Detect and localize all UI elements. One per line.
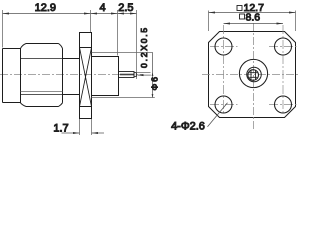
svg-text:0.2X0.5: 0.2X0.5 — [139, 26, 149, 68]
hole bottom-right — [275, 96, 292, 113]
side view: dimension line 12.9/4/2.5 — [3, 13, 137, 15]
left cap cylinder — [3, 49, 21, 103]
pin chamfer arrow line — [138, 74, 151, 76]
extension line x=136.5 pin tip — [136, 10, 138, 79]
flange side rectangle — [80, 33, 92, 119]
dim 8.6 line — [224, 23, 284, 25]
centerline of side view — [0, 74, 143, 76]
svg-text:8.6: 8.6 — [246, 11, 261, 23]
arrow pair at x=117.5 — [111, 13, 118, 15]
flange X diagonal 2 — [80, 48, 92, 107]
arrow 12.7 right — [289, 12, 296, 14]
label phi6 — [149, 75, 159, 91]
arrow 1.7 right — [92, 132, 99, 134]
arrow pair at x=90.5 — [84, 13, 91, 15]
pin dark core — [120, 74, 134, 76]
hex nut body outline — [21, 44, 63, 107]
svg-text:1.7: 1.7 — [53, 122, 68, 134]
phi6 arrow up — [152, 73, 154, 76]
center pin circle hatched — [248, 70, 259, 81]
mid cylinder between hex and flange — [63, 59, 80, 95]
arrow 8.6 left — [224, 23, 231, 25]
extension 12.7 right — [295, 11, 297, 32]
svg-text:4-Φ2.6: 4-Φ2.6 — [171, 120, 205, 132]
extension 12.7 left — [208, 11, 210, 32]
main centerline horizontal — [202, 74, 300, 76]
flange inner line bottom — [80, 106, 92, 108]
phi6 extension line bottom — [92, 97, 155, 99]
phi6 dimension line — [152, 53, 154, 98]
label 0.2X0.5 — [139, 26, 149, 68]
svg-text:2.5: 2.5 — [118, 2, 133, 14]
arrow 1.7 left — [73, 132, 80, 134]
pin chamfer arrow — [138, 74, 144, 76]
hole centerline horizontal bottom — [210, 104, 297, 106]
hole centerline horizontal top — [210, 46, 297, 48]
hole centerline vertical left — [223, 25, 225, 115]
svg-text:12.9: 12.9 — [35, 2, 56, 14]
dimension 1.7 extension left — [79, 119, 81, 135]
label 12.7 — [237, 2, 264, 14]
flange square with chamfered corners — [209, 32, 296, 118]
center middle circle — [247, 67, 262, 82]
pin chamfer extension line — [136, 72, 150, 74]
hole centerline vertical right — [282, 25, 284, 115]
dim 12.7 line — [209, 12, 296, 14]
svg-text:Φ6: Φ6 — [149, 75, 159, 91]
label 8.6 — [240, 11, 261, 23]
main centerline vertical — [253, 23, 255, 131]
extension line x=117.5 body right face — [117, 10, 119, 56]
phi6 extension line top — [92, 52, 153, 54]
body cylinder behind flange — [92, 57, 119, 96]
extension line x=90.5 flange right face — [90, 10, 92, 32]
hex face line bottom2 — [21, 94, 63, 96]
hex face line top — [21, 58, 63, 60]
hole top-left — [215, 38, 232, 55]
hole top-right — [275, 38, 292, 55]
pin tip section — [134, 73, 136, 77]
arrow 8.6 right — [277, 23, 284, 25]
leader 4-phi2.6 — [208, 103, 228, 127]
extension line x=2.5 — [2, 10, 4, 48]
arrow left end 12.9 — [3, 13, 10, 15]
arrow 12.7 left — [209, 12, 216, 14]
center outer circle — [239, 59, 267, 87]
arrow right end 2.5 — [130, 13, 137, 15]
center pin — [119, 72, 135, 78]
phi6 arrow down — [152, 94, 154, 97]
hole bottom-left — [215, 96, 232, 113]
flange inner line top — [80, 47, 92, 49]
svg-text:4: 4 — [99, 2, 105, 14]
dimension 1.7 line — [62, 132, 105, 134]
flange X diagonal 1 — [80, 48, 92, 107]
hex face line bottom1 — [21, 91, 63, 93]
dimension 1.7 extension right — [91, 119, 93, 135]
